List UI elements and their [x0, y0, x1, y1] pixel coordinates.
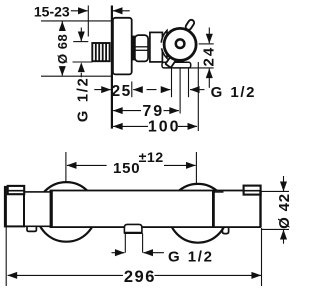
outlet stub right arrow: [143, 252, 164, 254]
outlet width right arrow: [190, 89, 205, 91]
right end edge: [259, 191, 261, 228]
union nut: [135, 35, 148, 61]
valve connector block: [150, 32, 163, 62]
dimension 296 right extension line: [261, 228, 263, 286]
outlet stub extension line left: [124, 233, 126, 252]
handle seam line: [212, 191, 215, 228]
left escutcheon circle: [37, 182, 97, 242]
handle bottom lug: [165, 56, 176, 68]
bar main body: [50, 191, 213, 228]
right escutcheon circle: [169, 184, 228, 243]
handle center knob: [176, 39, 185, 48]
dimension D68 upper tick: [41, 20, 112, 22]
svg-text:G 1 / 2: G 1 / 2: [75, 78, 91, 122]
svg-text:±12: ±12: [139, 150, 164, 166]
center outlet stub: [124, 224, 141, 233]
groove band: [131, 36, 135, 61]
dimension 15-23 right arrow: [113, 10, 130, 12]
outlet extension line left: [171, 68, 173, 97]
left top box: [8, 186, 25, 194]
left bottom tab: [27, 227, 36, 231]
dimension 100 left arrow: [113, 125, 148, 127]
center outlet stub base: [124, 232, 141, 234]
outlet axis extension line: [179, 68, 181, 113]
svg-text:Ø 42: Ø 42: [276, 193, 290, 229]
D42 lower tick: [262, 228, 290, 230]
bar neck section: [24, 192, 50, 226]
extension line pipe end: [87, 6, 89, 37]
thread G12 wall dimension lower tick: [73, 61, 93, 63]
dimension 25 right extension line: [131, 82, 133, 98]
D42 lower arrow: [283, 230, 285, 244]
escutcheon body: [113, 18, 132, 75]
handle outer circle: [164, 28, 196, 60]
left block thick edge: [4, 186, 6, 227]
dimension 24 lower tick: [189, 67, 214, 69]
dimension 296 left arrow: [8, 274, 123, 276]
svg-text:79: 79: [142, 103, 164, 120]
dimension 25 right arrow: [133, 89, 141, 91]
thread G12 wall dimension upper arrow: [80, 28, 82, 42]
bar body left thick edge: [50, 191, 53, 228]
handle front extension line: [197, 62, 199, 131]
right bottom tab: [222, 227, 228, 234]
dimension D68 lower tick: [41, 75, 112, 77]
D42 upper arrow: [283, 176, 285, 191]
dimension 79 right arrow: [164, 110, 179, 112]
outlet stub left arrow: [112, 252, 125, 254]
svg-text:296: 296: [124, 268, 156, 286]
thread G12 wall dimension lower arrow: [80, 63, 82, 78]
dimension 296 right arrow: [155, 274, 262, 276]
svg-text:24: 24: [201, 46, 218, 67]
outlet band under handle: [162, 62, 191, 68]
dimension 150 left arrow: [67, 164, 107, 166]
dimension 25 left arrow: [94, 89, 111, 91]
svg-text:150: 150: [113, 160, 140, 177]
dimension 296 left extension line: [5, 227, 7, 286]
dimension 24 upper arrow: [208, 28, 210, 44]
svg-text:25: 25: [111, 83, 131, 100]
union nut face line 1: [135, 46, 148, 48]
wall line: [111, 6, 113, 129]
union nut face line 2: [135, 49, 148, 51]
dimension 15-23 left arrow: [71, 10, 88, 12]
svg-text:G 1 / 2: G 1 / 2: [211, 84, 255, 101]
dimension D68 line with arrows: [61, 21, 63, 30]
dimension 79 left arrow: [113, 110, 141, 112]
cartridge stem gap: [154, 43, 164, 49]
dimension 24 upper tick: [199, 43, 214, 45]
thread G12 wall dimension upper tick: [73, 41, 88, 43]
right top box: [244, 186, 261, 195]
outlet extension line right: [188, 68, 190, 97]
handle top lug: [185, 19, 196, 31]
D42 upper tick: [262, 190, 290, 192]
svg-text:Ø 68: Ø 68: [55, 34, 70, 64]
handle section: [213, 191, 260, 228]
svg-text:15-23: 15-23: [34, 4, 70, 20]
cartridge flange arc behind handle: [161, 31, 167, 59]
dimension 100 right arrow: [178, 125, 197, 127]
dimension 150 right extension line: [195, 152, 197, 184]
dimension 24 lower arrow: [208, 69, 210, 88]
svg-text:G 1 / 2: G 1 / 2: [168, 249, 212, 266]
handle collar line: [214, 191, 223, 193]
left top box mid line: [8, 190, 25, 192]
outlet stub extension line right: [142, 233, 144, 252]
left end block: [5, 187, 24, 226]
dimension 150 left extension line: [65, 152, 67, 183]
svg-text:100: 100: [148, 119, 181, 136]
right top box mid line: [244, 190, 261, 192]
threaded nipple: [92, 43, 109, 61]
outlet width left arrow: [147, 89, 171, 91]
dimension 150 right arrow: [164, 164, 196, 166]
